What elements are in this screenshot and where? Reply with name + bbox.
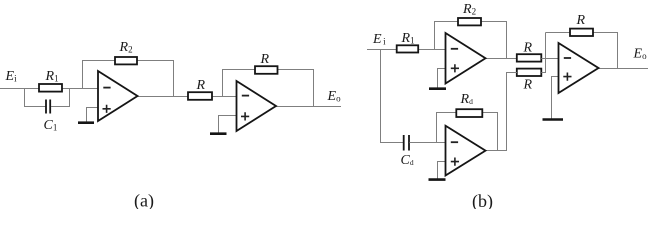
wire parallel branch bottom left	[24, 106, 46, 108]
op-amp U1a	[98, 71, 138, 121]
op-amp U2a	[237, 81, 277, 131]
svg-text:R: R	[576, 13, 586, 28]
wire bottom summing resistor left to U2b output	[507, 73, 517, 151]
capacitor C1	[46, 100, 50, 114]
node Ei input label (b)	[372, 32, 386, 47]
wire feedback loop R2 (U1b)	[435, 22, 507, 59]
resistor R1 (b)	[397, 31, 419, 53]
op-amp U1b	[446, 33, 486, 84]
wire U1a output to U2a input	[138, 96, 237, 98]
node Ei input label (a)	[5, 69, 18, 84]
resistor R2 (b)	[458, 2, 481, 25]
ground (U2a)	[210, 132, 227, 135]
resistor R feedback U2a	[255, 52, 278, 74]
wire feedback loop Rd (U2b)	[437, 113, 498, 151]
capacitor Cd value label	[401, 153, 414, 168]
capacitor C1 value label	[44, 118, 58, 133]
wire parallel branch left vertical	[24, 89, 26, 107]
wire U2b output right	[486, 150, 508, 152]
resistor R (series between stages, circuit a)	[188, 78, 212, 100]
wire parallel branch bottom right	[51, 106, 70, 108]
svg-text:R: R	[523, 78, 533, 93]
wire top summing resistor to U3b inverting input	[541, 58, 558, 60]
resistor R feedback U3b	[570, 13, 593, 36]
resistor R summing bottom	[517, 69, 542, 93]
wire U2a output to Eo	[276, 106, 341, 108]
svg-text:R: R	[523, 41, 533, 56]
wire bottom summing resistor right to junction	[541, 72, 546, 74]
node Eo output label (a)	[327, 89, 342, 104]
wire U2b non-inverting input to ground	[438, 162, 446, 179]
op-amp U2b	[446, 126, 486, 176]
wire feedback loop R (U2a)	[223, 70, 314, 107]
ground (U1b)	[429, 87, 446, 90]
wire U3b output to Eo	[599, 68, 648, 70]
wire feedback loop R (U3b)	[546, 33, 618, 69]
wire U1b output to top summing resistor	[486, 58, 517, 60]
wire U2a non-inverting input to ground	[219, 116, 237, 134]
svg-text:(b): (b)	[472, 191, 493, 209]
svg-text:R: R	[196, 78, 206, 93]
svg-text:(a): (a)	[134, 191, 154, 210]
wire input node down to Cd branch	[380, 50, 382, 143]
wire summing junction vertical	[545, 33, 547, 74]
wire input Ei to op-amp U1b inverting input	[367, 49, 446, 51]
resistor R2	[115, 40, 137, 64]
wire input Ei to op-amp U1a inverting input	[0, 88, 98, 90]
wire U3b non-inverting input to ground	[552, 77, 559, 119]
wire Cd to U2b inverting input	[409, 142, 445, 144]
resistor Rd	[456, 92, 482, 117]
svg-text:R: R	[260, 52, 270, 67]
node Eo output label (b)	[633, 47, 648, 62]
wire feedback loop R2 (U1a)	[83, 61, 174, 97]
ground (U2b)	[429, 178, 446, 181]
caption (a)	[134, 191, 154, 212]
wire parallel branch right vertical	[69, 89, 71, 107]
ground (U1a)	[78, 121, 94, 124]
capacitor Cd	[404, 135, 409, 151]
resistor R1	[39, 69, 62, 92]
caption (b)	[472, 191, 493, 212]
wire U1a non-inverting input to ground	[87, 108, 99, 123]
op-amp U3b	[559, 43, 599, 93]
resistor R summing top	[517, 41, 542, 62]
wire U1b non-inverting input to ground	[438, 69, 446, 89]
wire Cd branch horizontal left	[380, 142, 403, 144]
ground (U3b)	[543, 118, 564, 121]
